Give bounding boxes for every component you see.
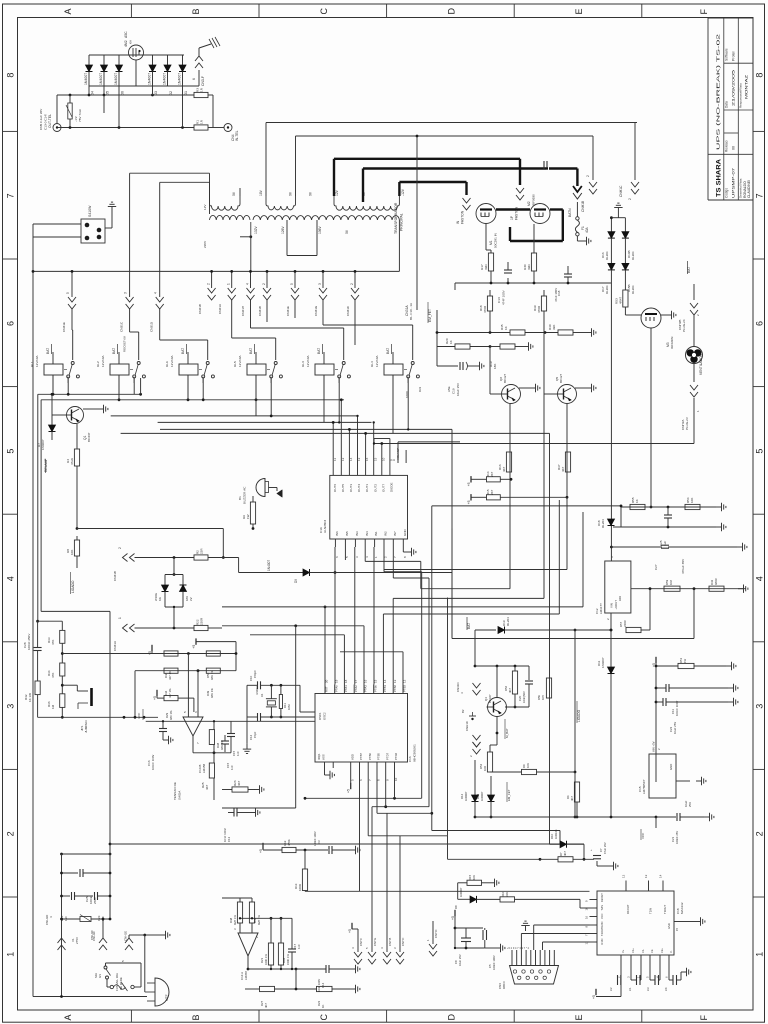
svg-text:VIN +5V: VIN +5V bbox=[652, 741, 656, 752]
svg-text:1N4007: 1N4007 bbox=[480, 791, 484, 801]
svg-text:C27: C27 bbox=[654, 564, 658, 570]
svg-text:100nF 25V: 100nF 25V bbox=[675, 831, 679, 844]
svg-text:PTA3: PTA3 bbox=[364, 685, 368, 692]
svg-text:C: C bbox=[319, 8, 329, 15]
svg-text:3: 3 bbox=[318, 283, 322, 285]
svg-text:OSC2: OSC2 bbox=[323, 712, 327, 720]
svg-text:X1: X1 bbox=[260, 693, 264, 697]
svg-text:OSC1: OSC1 bbox=[318, 712, 322, 720]
svg-text:CN31D: CN31D bbox=[150, 321, 154, 332]
svg-text:IN4: IN4 bbox=[365, 531, 369, 536]
svg-text:ULN2803: ULN2803 bbox=[323, 520, 327, 533]
svg-text:1K8: 1K8 bbox=[669, 580, 673, 585]
svg-text:126V: 126V bbox=[281, 225, 285, 234]
svg-text:40A: 40A bbox=[585, 226, 589, 233]
svg-text:8: 8 bbox=[754, 73, 764, 78]
svg-text:IN-TEL: IN-TEL bbox=[235, 130, 239, 141]
svg-text:+5 2 9 4 7 3 9 7 * 4: +5 2 9 4 7 3 9 7 * 4 bbox=[507, 946, 530, 950]
svg-text:150pF: 150pF bbox=[253, 670, 257, 678]
svg-text:1nF: 1nF bbox=[297, 944, 301, 949]
svg-text:4K7: 4K7 bbox=[561, 466, 565, 472]
svg-text:OUT7: OUT7 bbox=[381, 484, 385, 492]
svg-text:CN7:D: CN7:D bbox=[434, 930, 438, 938]
svg-text:BATN: BATN bbox=[568, 208, 572, 217]
svg-text:1: 1 bbox=[754, 952, 764, 957]
svg-text:D: D bbox=[446, 1014, 456, 1021]
svg-text:TS SHARA: TS SHARA bbox=[716, 159, 723, 197]
svg-text:A5C: A5C bbox=[124, 31, 128, 38]
svg-text:R48: R48 bbox=[229, 917, 233, 923]
svg-text:BAT: BAT bbox=[181, 348, 185, 354]
svg-text:1K: 1K bbox=[504, 326, 508, 330]
svg-text:IN5: IN5 bbox=[345, 531, 349, 536]
svg-text:B2: B2 bbox=[461, 709, 465, 713]
svg-text:PTB3: PTB3 bbox=[403, 685, 407, 692]
svg-text:BUZZER AC: BUZZER AC bbox=[243, 486, 247, 504]
svg-text:RL204: RL204 bbox=[506, 617, 510, 626]
svg-text:470R: 470R bbox=[483, 305, 487, 313]
svg-text:CN31E: CN31E bbox=[62, 322, 66, 332]
svg-text:12V/10A: 12V/10A bbox=[35, 355, 39, 367]
svg-text:CN31E: CN31E bbox=[286, 306, 290, 316]
svg-text:5: 5 bbox=[290, 283, 294, 285]
svg-text:OUT3: OUT3 bbox=[349, 484, 353, 492]
svg-text:LM7805CT: LM7805CT bbox=[642, 779, 646, 794]
svg-text:150K 1%: 150K 1% bbox=[286, 953, 290, 965]
svg-text:14: 14 bbox=[659, 874, 663, 878]
svg-text:01: 01 bbox=[184, 91, 188, 95]
svg-text:4K7: 4K7 bbox=[502, 466, 506, 472]
svg-text:12V/10A: 12V/10A bbox=[170, 355, 174, 367]
svg-text:C8: C8 bbox=[454, 960, 458, 964]
svg-text:D9: D9 bbox=[294, 579, 298, 583]
svg-text:1N4148: 1N4148 bbox=[554, 829, 558, 839]
svg-text:12V/10A: 12V/10A bbox=[375, 355, 379, 367]
svg-text:15: 15 bbox=[675, 927, 679, 931]
svg-text:680 1%: 680 1% bbox=[169, 710, 173, 720]
svg-text:ROCKET-6V: ROCKET-6V bbox=[123, 336, 127, 352]
svg-text:C19: C19 bbox=[452, 388, 456, 394]
svg-text:5: 5 bbox=[754, 449, 764, 454]
svg-text:IN7: IN7 bbox=[393, 531, 397, 536]
svg-text:100R: 100R bbox=[298, 884, 302, 891]
svg-text:C3: C3 bbox=[646, 987, 650, 991]
svg-text:D: D bbox=[446, 8, 456, 15]
svg-text:PTB7: PTB7 bbox=[359, 753, 363, 760]
svg-text:M_BAT: M_BAT bbox=[505, 728, 509, 738]
svg-text:13: 13 bbox=[585, 941, 589, 945]
svg-text:D10: D10 bbox=[550, 833, 554, 839]
svg-text:VSS: VSS bbox=[322, 754, 326, 760]
svg-text:RST: RST bbox=[325, 686, 329, 692]
svg-text:R1IN: R1IN bbox=[600, 938, 604, 944]
svg-text:8: 8 bbox=[6, 73, 16, 78]
svg-text:C14: C14 bbox=[321, 982, 325, 988]
svg-text:C5: C5 bbox=[488, 964, 492, 968]
svg-text:FASTON: FASTON bbox=[461, 210, 465, 224]
svg-text:M1: M1 bbox=[489, 240, 493, 245]
svg-text:CN21H: CN21H bbox=[241, 306, 245, 316]
svg-text:C7: C7 bbox=[599, 848, 603, 852]
svg-text:RL4: RL4 bbox=[370, 361, 374, 367]
svg-text:13: 13 bbox=[644, 874, 648, 878]
svg-text:OUT-TEL: OUT-TEL bbox=[48, 114, 52, 128]
svg-text:Responsavel/Vista: Responsavel/Vista bbox=[739, 83, 743, 108]
svg-text:1N4007: 1N4007 bbox=[163, 73, 167, 85]
svg-text:VIN: VIN bbox=[610, 603, 614, 608]
svg-text:CN7:F: CN7:F bbox=[359, 938, 363, 946]
svg-text:A5E: A5E bbox=[447, 386, 451, 392]
svg-text:1K: 1K bbox=[449, 340, 453, 344]
svg-text:04: 04 bbox=[91, 91, 95, 95]
svg-text:132V: 132V bbox=[254, 225, 258, 234]
svg-text:BC337: BC337 bbox=[87, 432, 91, 442]
svg-text:10R: 10R bbox=[483, 766, 487, 771]
svg-text:R21: R21 bbox=[260, 957, 264, 963]
svg-text:CN31C: CN31C bbox=[346, 305, 350, 316]
svg-text:1K 1W: 1K 1W bbox=[28, 693, 32, 702]
svg-text:OUT5: OUT5 bbox=[341, 484, 345, 492]
svg-text:PTB5: PTB5 bbox=[377, 753, 381, 760]
svg-text:+5: +5 bbox=[153, 696, 157, 700]
svg-text:RL204: RL204 bbox=[605, 285, 609, 294]
svg-text:SAIDA: SAIDA bbox=[178, 790, 182, 800]
svg-text:10nF(50V: 10nF(50V bbox=[522, 691, 526, 703]
svg-text:10K: 10K bbox=[472, 875, 476, 880]
svg-text:2: 2 bbox=[262, 283, 266, 285]
svg-text:Protel: Protel bbox=[732, 51, 736, 61]
svg-text:C1: C1 bbox=[628, 987, 632, 991]
svg-text:2K7: 2K7 bbox=[490, 489, 494, 495]
svg-text:2K7: 2K7 bbox=[490, 471, 494, 477]
svg-text:47K: 47K bbox=[51, 673, 55, 678]
svg-text:PTA2: PTA2 bbox=[354, 685, 358, 692]
svg-text:100nF 100V: 100nF 100V bbox=[492, 955, 496, 970]
svg-text:1N4007: 1N4007 bbox=[148, 73, 152, 85]
svg-text:IN2: IN2 bbox=[384, 531, 388, 536]
svg-text:1nF: 1nF bbox=[236, 751, 240, 756]
svg-text:CN31G: CN31G bbox=[314, 305, 318, 316]
svg-text:OUT4: OUT4 bbox=[357, 484, 361, 492]
svg-text:C16: C16 bbox=[408, 756, 412, 762]
svg-text:240R: 240R bbox=[623, 620, 627, 627]
svg-text:Data: Data bbox=[725, 101, 729, 108]
svg-text:BAT: BAT bbox=[46, 348, 50, 354]
svg-text:+5: +5 bbox=[347, 789, 351, 793]
svg-text:1N4007: 1N4007 bbox=[267, 560, 271, 571]
svg-text:10K: 10K bbox=[690, 498, 694, 503]
svg-text:PLUG-2V: PLUG-2V bbox=[685, 417, 689, 430]
svg-text:ADJ: ADJ bbox=[618, 595, 622, 601]
svg-text:06: 06 bbox=[121, 91, 125, 95]
svg-text:39K: 39K bbox=[552, 325, 556, 330]
svg-text:Codigo: Codigo bbox=[725, 188, 729, 198]
svg-text:CN7:B: CN7:B bbox=[388, 938, 392, 946]
svg-text:7: 7 bbox=[754, 193, 764, 198]
svg-text:18K: 18K bbox=[493, 364, 497, 369]
svg-text:19: 19 bbox=[334, 679, 338, 683]
svg-text:12V: 12V bbox=[203, 204, 207, 210]
svg-text:1K: 1K bbox=[635, 499, 639, 503]
svg-text:1W: 1W bbox=[246, 514, 250, 519]
svg-text:M2: M2 bbox=[527, 201, 531, 206]
svg-text:5: 5 bbox=[66, 292, 70, 294]
svg-text:CNH1E: CNH1E bbox=[124, 931, 128, 941]
svg-text:IRQ1: IRQ1 bbox=[317, 753, 321, 760]
svg-text:PTA0: PTA0 bbox=[334, 685, 338, 692]
svg-text:100nF 100V: 100nF 100V bbox=[675, 701, 679, 716]
svg-text:BC327: BC327 bbox=[503, 373, 507, 383]
svg-text:2: 2 bbox=[586, 175, 590, 177]
svg-text:4.9152: 4.9152 bbox=[255, 686, 259, 695]
svg-text:4K7: 4K7 bbox=[570, 796, 574, 801]
svg-text:VCC: VCC bbox=[137, 712, 141, 719]
svg-text:CN7:E: CN7:E bbox=[373, 938, 377, 946]
svg-text:C2: C2 bbox=[609, 987, 613, 991]
svg-text:3: 3 bbox=[6, 704, 16, 709]
svg-text:T2OUT: T2OUT bbox=[600, 927, 604, 936]
svg-text:15pF: 15pF bbox=[253, 731, 257, 738]
svg-text:+5: +5 bbox=[348, 929, 352, 933]
svg-text:2: 2 bbox=[350, 283, 354, 285]
svg-text:+5: +5 bbox=[148, 651, 152, 655]
svg-text:BC327: BC327 bbox=[488, 694, 492, 703]
svg-text:BAT: BAT bbox=[249, 348, 253, 354]
svg-text:B1- F10 - 1A: B1- F10 - 1A bbox=[409, 303, 413, 320]
svg-text:VDD: VDD bbox=[350, 754, 354, 760]
svg-text:10uF 25V: 10uF 25V bbox=[458, 954, 462, 966]
svg-text:6: 6 bbox=[192, 78, 196, 80]
svg-text:V-: V- bbox=[669, 950, 673, 953]
svg-text:10nF 100V: 10nF 100V bbox=[223, 828, 227, 842]
svg-text:4: 4 bbox=[154, 292, 158, 294]
svg-text:10M: 10M bbox=[287, 704, 291, 710]
svg-text:02: 02 bbox=[169, 91, 173, 95]
svg-text:C20: C20 bbox=[518, 695, 522, 701]
svg-text:F: F bbox=[699, 9, 709, 15]
svg-text:BAT: BAT bbox=[386, 348, 390, 354]
svg-text:C21: C21 bbox=[671, 836, 675, 842]
svg-text:T2IN: T2IN bbox=[600, 905, 604, 911]
svg-text:IN3: IN3 bbox=[355, 531, 359, 536]
svg-text:PTA1: PTA1 bbox=[344, 685, 348, 692]
svg-text:MONTAZ: MONTAZ bbox=[745, 74, 749, 99]
svg-text:6: 6 bbox=[6, 321, 16, 326]
svg-text:CNH1B: CNH1B bbox=[581, 200, 585, 212]
svg-text:T1OUT: T1OUT bbox=[663, 905, 667, 914]
svg-text:IRF9530: IRF9530 bbox=[532, 194, 536, 206]
svg-text:CN7:C: CN7:C bbox=[401, 938, 405, 946]
svg-text:50C281 IN: 50C281 IN bbox=[494, 233, 498, 248]
svg-text:TENSAO DE: TENSAO DE bbox=[173, 782, 177, 800]
svg-text:VENTILADOR: VENTILADOR bbox=[699, 353, 703, 375]
svg-text:ZV: ZV bbox=[189, 597, 193, 601]
svg-text:68K 1%: 68K 1% bbox=[210, 670, 214, 680]
svg-text:39R: 39R bbox=[527, 264, 531, 270]
svg-text:+5: +5 bbox=[192, 645, 196, 649]
svg-text:2: 2 bbox=[118, 547, 122, 549]
svg-text:LM358: LM358 bbox=[202, 763, 206, 773]
svg-text:+5: +5 bbox=[467, 482, 471, 486]
svg-text:12V/10A: 12V/10A bbox=[306, 355, 310, 367]
svg-text:CN21A: CN21A bbox=[218, 303, 222, 314]
svg-text:10K: 10K bbox=[526, 763, 530, 768]
svg-text:2: 2 bbox=[628, 198, 632, 200]
svg-text:1N4007: 1N4007 bbox=[114, 73, 118, 85]
svg-text:100nF 100V: 100nF 100V bbox=[313, 831, 317, 846]
svg-text:C: C bbox=[319, 1014, 329, 1021]
svg-text:CN5 0.1uF 26V: CN5 0.1uF 26V bbox=[39, 108, 43, 130]
svg-text:JUMPER: JUMPER bbox=[84, 720, 88, 733]
svg-text:10: 10 bbox=[585, 907, 589, 911]
svg-text:PTB2: PTB2 bbox=[393, 685, 397, 692]
svg-text:D12: D12 bbox=[460, 793, 464, 799]
svg-text:4M7 1%: 4M7 1% bbox=[233, 915, 237, 925]
svg-text:447 1%: 447 1% bbox=[168, 670, 172, 680]
svg-text:C13: C13 bbox=[227, 836, 231, 842]
svg-text:KA: KA bbox=[129, 40, 133, 44]
svg-text:3: 3 bbox=[124, 292, 128, 294]
svg-text:+5: +5 bbox=[451, 916, 455, 920]
svg-text:D8: D8 bbox=[454, 905, 458, 909]
svg-text:LIGADO: LIGADO bbox=[577, 709, 581, 722]
svg-text:DIODE: DIODE bbox=[390, 482, 394, 492]
svg-text:GND: GND bbox=[669, 764, 673, 770]
svg-text:OUT6: OUT6 bbox=[333, 484, 337, 492]
svg-text:0/1: 0/1 bbox=[98, 974, 102, 978]
svg-text:R2OUT: R2OUT bbox=[600, 893, 604, 902]
svg-text:OUT1: OUT1 bbox=[365, 484, 369, 492]
svg-text:16: 16 bbox=[585, 915, 589, 919]
svg-text:1K: 1K bbox=[321, 1004, 325, 1008]
svg-text:4K7: 4K7 bbox=[563, 851, 567, 856]
svg-text:4M7 1%: 4M7 1% bbox=[257, 915, 261, 925]
svg-text:R2IN: R2IN bbox=[600, 921, 604, 927]
svg-text:VCC: VCC bbox=[641, 832, 645, 839]
svg-text:100K 1%: 100K 1% bbox=[264, 953, 268, 965]
svg-text:4: 4 bbox=[6, 576, 16, 581]
svg-text:447 1%: 447 1% bbox=[168, 688, 172, 698]
svg-text:CLAUDINEI: CLAUDINEI bbox=[747, 180, 751, 198]
svg-text:V+: V+ bbox=[621, 949, 625, 953]
svg-text:21/09/2005: 21/09/2005 bbox=[732, 70, 736, 106]
svg-text:PRINCIPAL: PRINCIPAL bbox=[400, 213, 404, 231]
svg-text:6: 6 bbox=[754, 321, 764, 326]
svg-text:4: 4 bbox=[246, 283, 250, 285]
svg-text:1N4007: 1N4007 bbox=[99, 73, 103, 85]
svg-text:RL3: RL3 bbox=[301, 361, 305, 367]
svg-text:EM_FET: EM_FET bbox=[428, 309, 432, 322]
svg-text:47uF 25V: 47uF 25V bbox=[603, 842, 607, 854]
svg-text:15: 15 bbox=[373, 679, 377, 683]
svg-text:VCC: VCC bbox=[600, 913, 604, 919]
svg-text:RL204: RL204 bbox=[605, 251, 609, 260]
svg-text:R31: R31 bbox=[418, 386, 422, 392]
svg-text:474F 100V: 474F 100V bbox=[502, 290, 506, 305]
svg-text:68HC908JK1: 68HC908JK1 bbox=[413, 744, 417, 762]
svg-text:100nF 250V: 100nF 250V bbox=[27, 634, 31, 650]
svg-text:17: 17 bbox=[354, 679, 358, 683]
svg-text:100nF 100V: 100nF 100V bbox=[151, 755, 155, 770]
svg-text:PTD6: PTD6 bbox=[394, 752, 398, 760]
svg-text:EM_FET: EM_FET bbox=[507, 789, 511, 801]
svg-text:47K: 47K bbox=[51, 640, 55, 645]
svg-text:B: B bbox=[191, 8, 201, 14]
svg-text:1nF: 1nF bbox=[230, 765, 234, 770]
svg-text:KA: KA bbox=[158, 597, 162, 601]
svg-text:00: 00 bbox=[732, 146, 736, 150]
svg-text:1W: 1W bbox=[683, 658, 687, 663]
svg-text:IRF640N: IRF640N bbox=[670, 337, 674, 349]
svg-text:RL6: RL6 bbox=[165, 361, 169, 367]
svg-text:10K: 10K bbox=[70, 550, 74, 555]
svg-text:BC327: BC327 bbox=[559, 373, 563, 383]
svg-text:MAX232: MAX232 bbox=[680, 902, 684, 914]
svg-text:470K: 470K bbox=[287, 839, 291, 846]
svg-text:75V 7mm: 75V 7mm bbox=[78, 108, 82, 122]
svg-text:A: A bbox=[63, 8, 73, 14]
svg-text:10uF 25V: 10uF 25V bbox=[673, 722, 677, 734]
svg-text:C1+: C1+ bbox=[631, 948, 635, 953]
svg-text:18V: 18V bbox=[259, 189, 263, 196]
svg-text:680R: 680R bbox=[714, 578, 718, 585]
svg-text:E: E bbox=[574, 8, 584, 14]
svg-text:1K5: 1K5 bbox=[541, 695, 545, 700]
svg-text:C4: C4 bbox=[664, 987, 668, 991]
svg-text:CN31C: CN31C bbox=[120, 321, 124, 332]
svg-text:CN31D: CN31D bbox=[456, 683, 460, 692]
svg-text:C13: C13 bbox=[497, 297, 501, 303]
svg-text:2: 2 bbox=[754, 831, 764, 836]
svg-text:MTF: MTF bbox=[165, 994, 169, 1001]
svg-text:CN31B: CN31B bbox=[258, 306, 262, 316]
svg-text:470uF 35V: 470uF 35V bbox=[681, 558, 685, 574]
svg-text:S410W: S410W bbox=[88, 205, 92, 217]
svg-text:PTB6: PTB6 bbox=[368, 753, 372, 760]
svg-text:7: 7 bbox=[6, 193, 16, 198]
svg-text:1N4007: 1N4007 bbox=[601, 657, 605, 668]
svg-text:GND: GND bbox=[667, 923, 671, 929]
svg-text:RELAMP: RELAMP bbox=[44, 458, 48, 472]
svg-text:RL5: RL5 bbox=[233, 361, 237, 367]
svg-text:A: A bbox=[63, 1014, 73, 1020]
svg-text:4R47: 4R47 bbox=[619, 296, 623, 304]
svg-text:DE REDE: DE REDE bbox=[119, 977, 123, 990]
svg-text:D13: D13 bbox=[476, 793, 480, 799]
svg-text:RL2: RL2 bbox=[96, 361, 100, 367]
svg-text:GND: GND bbox=[403, 529, 407, 537]
svg-text:106V: 106V bbox=[318, 225, 322, 234]
svg-text:CNH1C: CNH1C bbox=[619, 185, 623, 197]
svg-text:68K 1%: 68K 1% bbox=[210, 688, 214, 698]
svg-text:RL1: RL1 bbox=[30, 361, 34, 367]
svg-text:CNH1D: CNH1D bbox=[45, 914, 49, 925]
svg-text:UPSMP-07: UPSMP-07 bbox=[732, 168, 736, 198]
svg-text:12V/10A: 12V/10A bbox=[238, 355, 242, 367]
svg-text:PLUG-24: PLUG-24 bbox=[682, 319, 686, 332]
svg-text:RONALDO: RONALDO bbox=[743, 181, 747, 198]
svg-text:+: + bbox=[589, 849, 593, 851]
svg-text:12V/10A: 12V/10A bbox=[101, 355, 105, 367]
svg-text:RL204: RL204 bbox=[631, 251, 635, 260]
svg-text:+5: +5 bbox=[467, 500, 471, 504]
svg-text:T1IN: T1IN bbox=[649, 908, 653, 914]
svg-text:1: 1 bbox=[227, 283, 231, 285]
svg-text:39R: 39R bbox=[484, 264, 488, 270]
svg-text:1N4007: 1N4007 bbox=[178, 73, 182, 85]
svg-text:C3: C3 bbox=[317, 840, 321, 844]
svg-text:4K7: 4K7 bbox=[237, 780, 241, 786]
